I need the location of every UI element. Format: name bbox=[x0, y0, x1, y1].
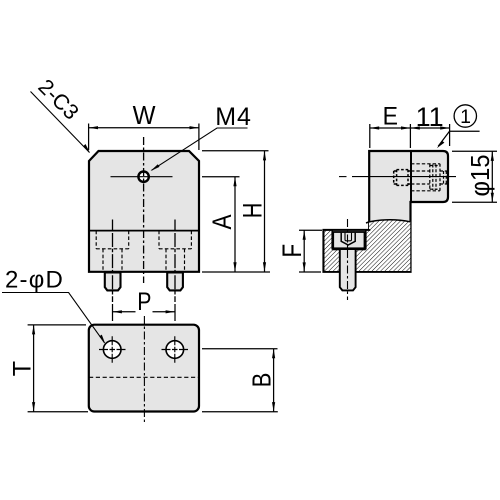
left hole crosshair bbox=[99, 349, 126, 351]
right hole crosshair bbox=[162, 349, 189, 351]
section hatch right blob bbox=[355, 220, 410, 271]
bottom view body bbox=[89, 325, 199, 412]
P dimension line bbox=[113, 311, 136, 313]
M4 leader bbox=[152, 128, 248, 170]
hidden plug in block bbox=[394, 170, 411, 186]
bottom view vertical centerline bbox=[143, 316, 145, 424]
hex socket bbox=[341, 233, 355, 245]
svg-text:W: W bbox=[133, 101, 156, 130]
svg-text:F: F bbox=[278, 244, 307, 258]
balloon leader bbox=[438, 131, 479, 146]
E/11 shared extension bbox=[409, 124, 411, 148]
H dimension line bbox=[264, 151, 266, 272]
pocket floor bbox=[332, 249, 340, 251]
balloon 1 bbox=[454, 105, 476, 127]
hole center extension to A bbox=[202, 176, 240, 178]
phi15 dimension line bbox=[491, 152, 493, 203]
side view horizontal centerline bbox=[339, 176, 347, 178]
2-phiD leader bbox=[2, 293, 105, 343]
svg-text:P: P bbox=[137, 287, 151, 315]
svg-text:φ15: φ15 bbox=[466, 154, 495, 196]
svg-text:A: A bbox=[209, 214, 238, 230]
right bolt below block bbox=[167, 273, 183, 291]
F extension lines bbox=[299, 229, 322, 231]
2-C3 leader bbox=[31, 92, 90, 153]
phi15 extension lines bbox=[452, 150, 497, 152]
svg-text:E: E bbox=[383, 103, 398, 131]
left bolt below block bbox=[105, 273, 121, 291]
bottom extension to A,H bbox=[202, 271, 270, 273]
svg-text:B: B bbox=[248, 373, 277, 388]
front vertical centerline bbox=[143, 137, 145, 283]
W dimension line bbox=[89, 127, 199, 129]
side body outline bbox=[324, 151, 449, 272]
svg-text:T: T bbox=[8, 361, 36, 376]
M4 tapped hole bbox=[138, 172, 148, 182]
E dimension line bbox=[370, 127, 411, 129]
svg-text:2-φD: 2-φD bbox=[5, 266, 64, 293]
W extension lines bbox=[88, 124, 90, 151]
section hatch left blob bbox=[325, 230, 340, 271]
right bolt top mark bbox=[174, 220, 176, 231]
pocket right wall bbox=[365, 230, 367, 250]
B extension lines bbox=[202, 348, 278, 350]
svg-text:1: 1 bbox=[460, 106, 471, 128]
pocket left wall bbox=[331, 230, 333, 250]
step top face line bbox=[324, 229, 332, 231]
T extension lines bbox=[28, 324, 86, 326]
hidden socket bore in cylinder bbox=[411, 164, 440, 191]
T dimension line bbox=[33, 325, 35, 412]
P extension lines bbox=[112, 304, 114, 321]
11 dimension line bbox=[410, 127, 449, 129]
hidden thread zone bbox=[430, 164, 448, 191]
M4 hole horizontal centerline bbox=[111, 176, 173, 178]
screw centerline bbox=[347, 219, 349, 300]
socket head cap screw head bbox=[333, 232, 364, 248]
B dimension line bbox=[273, 349, 275, 412]
screw shank bbox=[340, 249, 356, 290]
top extension to H bbox=[202, 150, 269, 152]
break arc bbox=[366, 220, 410, 223]
step edge line bbox=[89, 230, 199, 232]
hidden step edge bbox=[89, 376, 199, 378]
cylinder boundary line bbox=[410, 151, 412, 202]
screw head pocket bbox=[333, 231, 365, 250]
svg-text:M4: M4 bbox=[215, 103, 252, 131]
right bolt centerline bbox=[174, 233, 176, 302]
svg-text:H: H bbox=[238, 203, 268, 219]
svg-text:11: 11 bbox=[416, 102, 444, 132]
left bolt top mark bbox=[112, 220, 114, 231]
E extension line bbox=[369, 124, 371, 148]
F dimension line bbox=[303, 230, 305, 271]
right counterbore hidden bbox=[159, 231, 191, 271]
left hole bbox=[103, 341, 121, 359]
A dimension line bbox=[234, 177, 236, 272]
left counterbore hidden bbox=[96, 231, 129, 271]
left bolt centerline bbox=[112, 233, 114, 302]
front body outline bbox=[89, 151, 199, 272]
right hole bbox=[166, 341, 184, 359]
